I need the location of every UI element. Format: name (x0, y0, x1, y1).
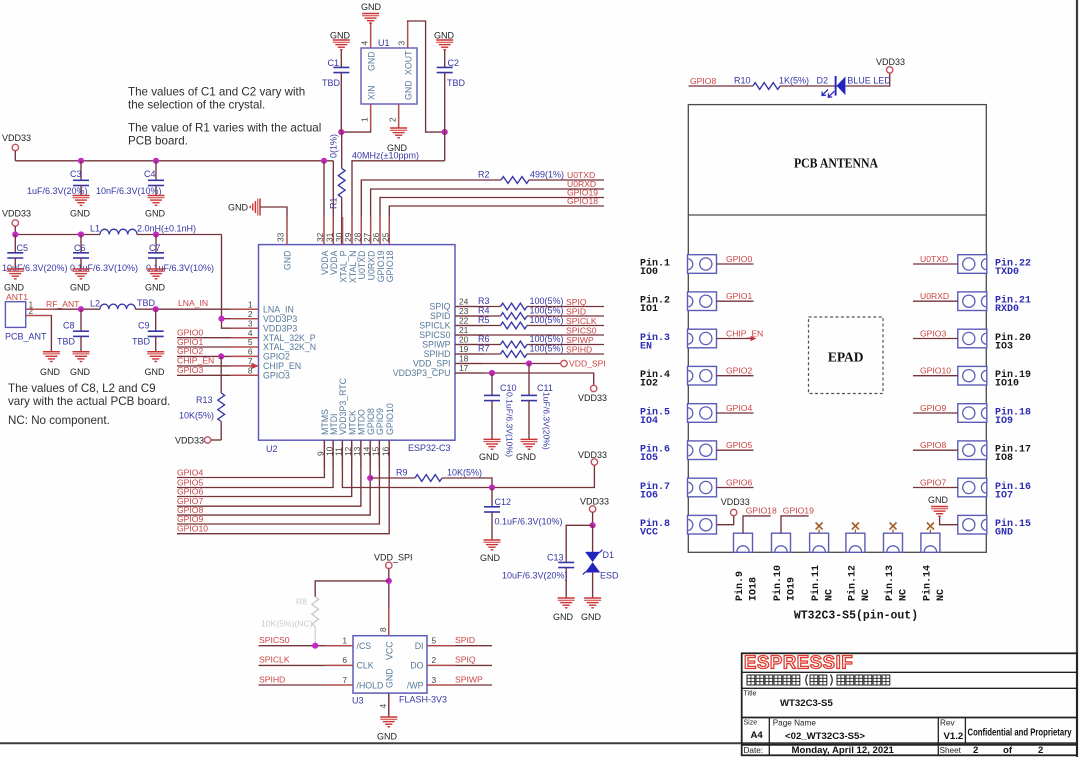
svg-text:10K(5%)(NC): 10K(5%)(NC) (261, 619, 313, 629)
svg-text:C8: C8 (63, 321, 75, 331)
wire to C13 (566, 525, 592, 562)
wire GPIO8 to R10 (689, 85, 753, 87)
svg-text:GND: GND (4, 283, 25, 293)
svg-text:100(5%): 100(5%) (530, 315, 564, 325)
module pad Pin.2 (688, 292, 717, 311)
wire GPIO9 (module pin 18) (913, 412, 958, 414)
svg-text:WT32C3-S5: WT32C3-S5 (780, 698, 833, 709)
svg-text:GND: GND (145, 283, 166, 293)
ground C8 (73, 351, 90, 353)
pin stubs U2 bottom (red) (324, 440, 389, 468)
svg-text:VDD3P3_CPU: VDD3P3_CPU (393, 368, 451, 378)
capacitor C12 (491, 488, 493, 507)
svg-text:Pin.10: Pin.10 (772, 565, 784, 601)
svg-text:ESP32-C3: ESP32-C3 (408, 443, 451, 453)
wire GPIO4 net (bottom) (177, 440, 324, 477)
svg-text:GND: GND (434, 31, 455, 41)
svg-text:VDD33: VDD33 (876, 57, 905, 67)
svg-text:GND: GND (283, 251, 293, 271)
wire GPIO7 (module pin 16) (913, 487, 958, 489)
svg-text:VDD33: VDD33 (578, 450, 607, 460)
svg-text:IO6: IO6 (640, 491, 658, 502)
power VDD33 terminal (pin17) (591, 385, 597, 391)
module pad Pin.10 (772, 533, 791, 552)
wire GPIO18 (module pin9) (743, 516, 771, 533)
wire U1 pin3 XOUT (408, 21, 445, 132)
svg-text:23: 23 (459, 306, 469, 316)
svg-text:2: 2 (1038, 745, 1043, 756)
module pad Pin.16 (958, 478, 987, 497)
svg-text:10nF/6.3V(10%): 10nF/6.3V(10%) (96, 186, 162, 196)
wire VDDA pin31 (332, 161, 334, 245)
svg-text:GPIO3: GPIO3 (920, 328, 946, 338)
ground C6 (73, 268, 90, 270)
svg-text:U3: U3 (352, 696, 364, 706)
NC mark Pin.14 (929, 530, 931, 534)
svg-text:GPIO1: GPIO1 (726, 291, 752, 301)
svg-text:VDD33: VDD33 (580, 497, 609, 507)
svg-text:GPIO18: GPIO18 (385, 250, 395, 282)
svg-text:the selection of the crystal.: the selection of the crystal. (128, 99, 265, 112)
antenna ANT1 (5, 302, 25, 328)
resistor R2 (501, 177, 529, 184)
svg-text:DI: DI (415, 641, 424, 651)
svg-text:GPIO4: GPIO4 (177, 467, 203, 477)
svg-text:GPIO6: GPIO6 (726, 477, 752, 487)
sheet right border (1076, 0, 1078, 757)
svg-text:R10: R10 (734, 76, 751, 86)
power VDD33 terminal (RTC rail) (591, 459, 597, 465)
title block frame (742, 653, 1077, 755)
svg-text:ESD: ESD (600, 571, 619, 581)
svg-text:2.0nH(±0.1nH): 2.0nH(±0.1nH) (137, 224, 196, 234)
svg-text:GPIO9: GPIO9 (920, 403, 946, 413)
svg-text:1uF/6.3V(20%): 1uF/6.3V(20%) (27, 186, 88, 196)
svg-text:LNA_IN: LNA_IN (178, 298, 208, 308)
svg-text:Size: Size (744, 720, 758, 727)
wire GPIO3 (module pin 20) (913, 338, 958, 340)
svg-text:TBD: TBD (57, 337, 76, 347)
junction rail2-C5 (12, 231, 18, 237)
svg-text:2: 2 (248, 309, 253, 319)
svg-text:18: 18 (459, 354, 469, 364)
svg-text:GPIO3: GPIO3 (263, 371, 290, 381)
svg-text:IO9: IO9 (995, 416, 1013, 427)
junction rail2-C6 (78, 231, 84, 237)
svg-text:0.1uF/6.3V(10%): 0.1uF/6.3V(10%) (505, 392, 515, 457)
wire GPIO2 (module pin 4) (717, 375, 754, 377)
svg-text:LNA_IN: LNA_IN (263, 304, 294, 314)
svg-text:3: 3 (432, 675, 437, 685)
svg-text:Page Name: Page Name (773, 719, 817, 728)
svg-text:GPIO0: GPIO0 (726, 254, 752, 264)
svg-text:GND: GND (479, 452, 500, 462)
svg-text:GPIO6: GPIO6 (177, 486, 203, 496)
wire GPIO2 to U2 pin 6 (177, 355, 259, 357)
wire VDD3P3 feed to pins 2/3 (222, 235, 259, 329)
svg-text:IO2: IO2 (640, 379, 658, 390)
junction VDD3P3 pin2 (218, 316, 224, 322)
wire SPICS0 net (flash) (259, 645, 354, 647)
diode D1 ESD (TVS) (592, 525, 594, 552)
arrow CHIP_EN (module) (751, 336, 757, 341)
svg-text:SPID: SPID (566, 307, 586, 317)
resistor R1 (341, 132, 343, 168)
wire VDD_SPI net (pin18) (455, 363, 561, 365)
svg-text:ANT1: ANT1 (6, 292, 28, 302)
svg-text:IO4: IO4 (640, 416, 658, 427)
module pad Pin.19 (958, 366, 987, 385)
svg-text:IO7: IO7 (995, 491, 1013, 502)
wire GPIO6 net (bottom) (177, 440, 352, 496)
capacitor C8 (80, 309, 82, 331)
svg-text:VDD3P3: VDD3P3 (263, 323, 297, 333)
svg-text:XOUT: XOUT (404, 50, 414, 75)
junction rail1-C4 (153, 158, 159, 164)
wire SPIQ net (flash) (427, 664, 492, 666)
junction XOUT-C2 (442, 129, 448, 135)
junction RF_ANT-C8 (78, 306, 84, 312)
svg-text:SPID: SPID (430, 311, 451, 321)
wire GPIO0 (module pin 1) (717, 263, 754, 265)
svg-text:WT32C3-S5(pin-out): WT32C3-S5(pin-out) (794, 610, 918, 623)
svg-text:6: 6 (342, 655, 347, 665)
svg-text:IO3: IO3 (995, 342, 1013, 353)
svg-text:A4: A4 (751, 730, 764, 741)
svg-text:100(5%): 100(5%) (530, 296, 564, 306)
svg-text:8: 8 (378, 627, 388, 632)
svg-text:100(5%): 100(5%) (530, 306, 564, 316)
svg-text:0.1uF/6.3V(10%): 0.1uF/6.3V(10%) (495, 517, 563, 527)
wire GPIO19 net (top) (380, 198, 604, 245)
svg-text:8: 8 (248, 366, 253, 376)
wire GPIO6 (module pin 7) (717, 487, 754, 489)
ground C13 (558, 597, 575, 599)
ground U3 (380, 716, 397, 718)
svg-text:SPIHD: SPIHD (424, 349, 451, 359)
company name (CJK) (747, 675, 890, 686)
ground C4 (148, 195, 165, 197)
svg-text:IO19: IO19 (787, 577, 798, 601)
wire U1 pin2 to ground (398, 104, 400, 128)
module pad Pin.6 (688, 441, 717, 460)
wire SPIQ net (455, 306, 501, 308)
wire GPIO1 to U2 pin 5 (177, 346, 259, 348)
capacitor C10 (491, 373, 493, 395)
svg-text:2: 2 (29, 306, 34, 316)
wire U3 GND pin (388, 693, 390, 717)
wire ANT1 pin2 to ground (26, 316, 52, 352)
wire SPIHD net (455, 353, 501, 355)
resistor R5 (501, 322, 528, 329)
svg-text:GND: GND (553, 612, 574, 622)
svg-text:GND: GND (516, 452, 537, 462)
svg-text:GND: GND (361, 2, 382, 12)
svg-text:GPIO4: GPIO4 (726, 403, 752, 413)
svg-text:499(1%): 499(1%) (530, 170, 564, 180)
ground C12 (484, 539, 501, 541)
svg-text:SPID: SPID (455, 635, 475, 645)
svg-text:TBD: TBD (447, 78, 466, 88)
svg-text:TXD0: TXD0 (995, 267, 1019, 278)
junction GPIO2-R13 (218, 353, 224, 359)
svg-text:RF_ANT: RF_ANT (46, 299, 80, 309)
svg-text:IO1: IO1 (640, 304, 658, 315)
svg-text:Pin.14: Pin.14 (921, 565, 933, 601)
svg-text:21: 21 (459, 325, 469, 335)
svg-text:2: 2 (388, 117, 398, 122)
svg-text:PCB ANTENNA: PCB ANTENNA (794, 156, 878, 171)
wire U1 pin1 XIN (341, 104, 370, 132)
wire D2 to VDD33 (845, 73, 889, 86)
svg-text:D2: D2 (817, 76, 829, 86)
pin stubs U1 (red) (370, 22, 372, 48)
svg-text:Rev: Rev (940, 719, 955, 728)
svg-text:IO10: IO10 (995, 379, 1019, 390)
svg-text:2: 2 (432, 655, 437, 665)
svg-text:GND: GND (367, 51, 377, 71)
svg-text:GND: GND (995, 528, 1013, 539)
svg-text:SPICLK: SPICLK (419, 321, 450, 331)
svg-text:C6: C6 (74, 243, 86, 253)
resistor R13 (220, 356, 222, 393)
svg-text:SPICS0: SPICS0 (259, 635, 290, 645)
capacitor C9 (155, 309, 157, 331)
svg-text:VCC: VCC (640, 528, 658, 539)
svg-text:17: 17 (459, 363, 469, 373)
wire VDD33 rail 2 (15, 234, 100, 236)
wire SPID net (455, 315, 501, 317)
svg-text:GPIO2: GPIO2 (726, 366, 752, 376)
svg-text:GPIO10: GPIO10 (177, 524, 208, 534)
svg-text:4: 4 (360, 41, 370, 46)
module pad Pin.8 (688, 515, 717, 534)
op-amp U2 ESP32-C3 IC body (259, 245, 456, 441)
junction rail1-C3 (78, 158, 84, 164)
svg-text:VCC: VCC (385, 641, 395, 660)
wire GPIO3 to U2 pin 8 (177, 374, 259, 376)
module pad Pin.13 (884, 533, 903, 552)
wire U0RXD (module pin 21) (913, 300, 958, 302)
module pad Pin.5 (688, 404, 717, 423)
capacitor C6 (80, 235, 82, 253)
svg-text:SPIQ: SPIQ (566, 297, 587, 307)
module pad Pin.4 (688, 366, 717, 385)
wire GPIO18 net (top) (389, 206, 604, 245)
ground C2 (top) (436, 39, 453, 41)
svg-text:C3: C3 (70, 169, 82, 179)
module outline WT32C3-S5 (688, 105, 986, 553)
svg-text:1: 1 (360, 117, 370, 122)
EPAD outline (809, 317, 884, 394)
svg-text:22: 22 (459, 316, 469, 326)
svg-text:7: 7 (342, 675, 347, 685)
svg-text:FLASH-3V3: FLASH-3V3 (399, 695, 447, 705)
pin stubs U2 right (red) (455, 307, 483, 374)
svg-text:C7: C7 (149, 243, 161, 253)
svg-text:GPIO8: GPIO8 (920, 440, 946, 450)
svg-text:R7: R7 (478, 344, 490, 354)
svg-text:IO8: IO8 (995, 453, 1013, 464)
junction rail2-C7 (153, 231, 159, 237)
svg-text:GPIO7: GPIO7 (920, 477, 946, 487)
svg-text:GND: GND (404, 80, 414, 100)
ground D1 (584, 597, 601, 599)
svg-text:The values of C8, L2 and C9: The values of C8, L2 and C9 (8, 382, 156, 395)
NC mark Pin.11 (818, 530, 820, 534)
module pad Pin.9 (734, 533, 753, 552)
svg-text:GPIO2: GPIO2 (177, 346, 203, 356)
module pad Pin.3 (688, 329, 717, 348)
capacitor C13 (565, 561, 567, 563)
svg-text:1: 1 (248, 299, 253, 309)
svg-text:GND: GND (70, 367, 91, 377)
input arrow CHIP_EN pin7 (252, 363, 259, 369)
svg-text:ESPRESSIF: ESPRESSIF (744, 652, 853, 673)
svg-text:GPIO19: GPIO19 (783, 506, 814, 516)
wire XTAL_N 40MHz net (352, 161, 445, 245)
svg-text:19: 19 (459, 344, 469, 354)
ground C5 (7, 268, 24, 270)
module pad Pin.21 (958, 292, 987, 311)
junction SPICS0-R8 (312, 643, 318, 649)
svg-text:U0RXD: U0RXD (920, 291, 949, 301)
svg-text:10K(5%): 10K(5%) (179, 411, 214, 421)
wire GPIO10 net (bottom) (177, 440, 389, 534)
svg-text:Date:: Date: (744, 746, 764, 755)
svg-text:R8: R8 (296, 597, 307, 607)
svg-text:Pin.9: Pin.9 (734, 571, 746, 601)
svg-text:NC: NC (899, 589, 910, 601)
wire CHIP_EN (module pin 3) (717, 338, 754, 340)
svg-text:SPIWP: SPIWP (455, 674, 483, 684)
capacitor C5 (14, 235, 16, 253)
junction VDD_SPI-R8 (386, 578, 392, 584)
ground C10 (484, 438, 501, 440)
resistor R10 (753, 83, 780, 90)
resistor R6 (501, 341, 528, 348)
svg-text:GND: GND (581, 612, 602, 622)
power VDD33 terminal (module VCC) (731, 509, 737, 515)
svg-text:IO0: IO0 (640, 267, 658, 278)
wire GND module pin15 (940, 516, 958, 525)
svg-text:C1: C1 (328, 58, 340, 68)
power VDD_SPI terminal (561, 360, 567, 366)
svg-text:10uF/6.3V(20%): 10uF/6.3V(20%) (502, 571, 568, 581)
ground C9 (147, 351, 164, 353)
svg-text:R4: R4 (478, 306, 490, 316)
svg-text:U2: U2 (266, 444, 278, 454)
wire GPIO8 (module pin 17) (913, 449, 958, 451)
svg-text:VDD33: VDD33 (2, 209, 31, 219)
svg-text:5: 5 (432, 636, 437, 646)
svg-text:GND: GND (330, 31, 351, 41)
wire GPIO5 (module pin 6) (717, 449, 754, 451)
power VDD33 terminal (R13) (211, 439, 221, 441)
resistor R9 (370, 477, 415, 479)
svg-text:33: 33 (276, 232, 286, 242)
svg-text:3: 3 (248, 318, 253, 328)
svg-text:Confidential and Proprietary: Confidential and Proprietary (968, 728, 1072, 739)
svg-text:Monday, April 12, 2021: Monday, April 12, 2021 (792, 745, 895, 756)
resistor R7 (501, 351, 528, 358)
svg-text:CHIP_EN: CHIP_EN (726, 328, 763, 338)
junction VDD_SPI-C11 (526, 360, 532, 366)
svg-text:3: 3 (397, 41, 407, 46)
inductor L2 (100, 304, 135, 309)
svg-text:C5: C5 (17, 243, 29, 253)
power VDD33 terminal (LED) (887, 67, 893, 73)
svg-text:R13: R13 (196, 395, 213, 405)
svg-text:GPIO10: GPIO10 (920, 366, 951, 376)
svg-text:C2: C2 (448, 58, 460, 68)
svg-text:R5: R5 (478, 315, 490, 325)
svg-text:<02_WT32C3-S5>: <02_WT32C3-S5> (785, 731, 865, 742)
svg-text:SPIQ: SPIQ (455, 655, 476, 665)
wire SPICLK net (flash) (259, 664, 354, 666)
resistor R8 (NC, not fitted) (312, 597, 319, 627)
svg-text:GND: GND (40, 367, 61, 377)
svg-text:24: 24 (459, 297, 469, 307)
svg-text:GPIO10: GPIO10 (385, 403, 395, 435)
svg-text:VDD33: VDD33 (578, 393, 607, 403)
svg-text:0(1%): 0(1%) (329, 134, 339, 158)
svg-text:2: 2 (973, 745, 978, 756)
svg-text:D1: D1 (603, 550, 615, 560)
svg-text:Title: Title (744, 691, 757, 698)
NC mark Pin.13 (892, 530, 894, 534)
svg-text:GND: GND (70, 209, 91, 219)
svg-text:Pin.13: Pin.13 (884, 565, 896, 601)
svg-text:V1.2: V1.2 (944, 731, 964, 742)
svg-text:10K(5%): 10K(5%) (447, 468, 482, 478)
svg-text:U1: U1 (378, 38, 390, 48)
svg-text:PCB board.: PCB board. (128, 135, 188, 148)
wire GPIO0 to U2 pin 4 (177, 337, 259, 339)
wire U0TXD (module pin 22) (913, 263, 958, 265)
wire GPIO7 net (bottom) (177, 440, 361, 506)
svg-text:R3: R3 (478, 296, 490, 306)
module pad Pin.11 (810, 533, 829, 552)
svg-text:GPIO8: GPIO8 (690, 76, 716, 86)
ground C7 (148, 268, 165, 270)
svg-text:L1: L1 (90, 224, 100, 234)
resistor R4 (501, 313, 528, 320)
wire VDD3P3_CPU net (pin17) (455, 373, 594, 385)
sheet bottom border (0, 742, 1077, 744)
junction VDD33-C13-D1 (590, 522, 596, 528)
crystal U1 (361, 48, 417, 104)
wire U2 pin33 (260, 207, 287, 245)
wire U0TXD net with R2 (361, 180, 501, 245)
ground C3 (73, 195, 90, 197)
svg-text:BLUE LED: BLUE LED (847, 76, 891, 86)
svg-text:GND: GND (145, 209, 166, 219)
svg-text:U0TXD: U0TXD (920, 254, 948, 264)
pin stubs U2 top (red) (287, 217, 389, 245)
svg-text:1: 1 (342, 636, 347, 646)
svg-text:Sheet: Sheet (940, 746, 962, 755)
wire U1 pin4 to ground (370, 23, 372, 48)
pin stubs ANT1 (red) (26, 308, 53, 310)
svg-text:GPIO2: GPIO2 (263, 352, 290, 362)
ground U1 pin2 (390, 127, 407, 129)
svg-text:DO: DO (410, 661, 423, 671)
svg-text:GPIO9: GPIO9 (177, 514, 203, 524)
junction C12-VDD33 (489, 484, 495, 490)
svg-text:of: of (1003, 745, 1013, 756)
svg-text:C12: C12 (495, 497, 512, 507)
